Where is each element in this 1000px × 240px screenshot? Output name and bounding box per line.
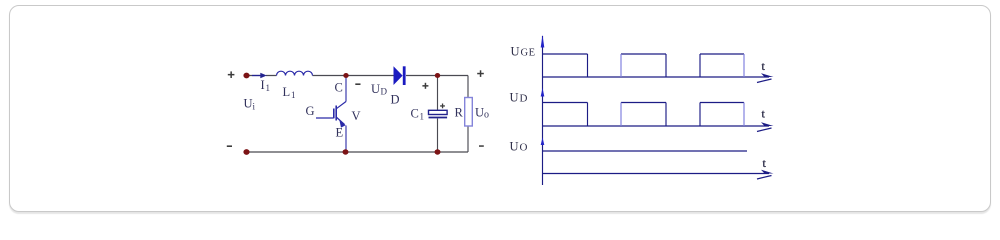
axis arrowhead up (UGE) bbox=[541, 35, 545, 48]
svg-text:D: D bbox=[520, 93, 528, 105]
svg-text:D: D bbox=[391, 93, 400, 107]
gate bar bbox=[333, 109, 335, 119]
svg-text:C: C bbox=[335, 81, 343, 95]
wire: emitter lead bbox=[345, 126, 347, 153]
label UD (waveform) bbox=[510, 91, 528, 105]
svg-text:t: t bbox=[762, 59, 766, 73]
svg-text:1: 1 bbox=[420, 112, 425, 122]
UD time axis bbox=[543, 125, 770, 127]
label UD bbox=[371, 82, 388, 97]
node: capacitor bottom junction bbox=[435, 149, 441, 154]
UD axis arrow bbox=[757, 122, 774, 131]
UO axis arrow bbox=[757, 170, 774, 179]
label Uo bbox=[475, 106, 489, 121]
label C1 bbox=[411, 107, 425, 122]
svg-text:C: C bbox=[411, 107, 419, 121]
node: input top junction bbox=[243, 73, 249, 79]
svg-text:U: U bbox=[475, 106, 484, 120]
resistor R bbox=[465, 98, 473, 127]
UGE time axis bbox=[543, 76, 770, 78]
svg-text:t: t bbox=[762, 107, 766, 121]
svg-text:I: I bbox=[261, 78, 265, 92]
svg-text:R: R bbox=[455, 106, 464, 120]
label I1 bbox=[261, 78, 271, 93]
wire: top rail from input node to diode anode bbox=[246, 75, 394, 77]
wire: bottom rail bbox=[246, 151, 468, 153]
svg-text:o: o bbox=[484, 110, 489, 121]
UGE axis arrow bbox=[757, 73, 774, 82]
svg-text:D: D bbox=[381, 87, 388, 97]
node: diode cathode junction bbox=[435, 73, 440, 78]
svg-text:GE: GE bbox=[521, 48, 536, 59]
axis arrowhead up (UO) bbox=[541, 137, 545, 145]
svg-text:1: 1 bbox=[291, 90, 296, 100]
label + (input positive terminal) bbox=[228, 71, 235, 78]
UD waveform trace bbox=[543, 103, 745, 127]
UO level trace bbox=[543, 150, 748, 152]
label - (input negative terminal) bbox=[227, 145, 232, 147]
capacitor C1 bbox=[429, 110, 448, 117]
emitter arrowhead bbox=[339, 119, 345, 127]
inductor L1 bbox=[277, 71, 313, 75]
node: collector top junction bbox=[343, 73, 348, 78]
vertical axis (shared) bbox=[542, 36, 544, 185]
label + (capacitor polarity) bbox=[440, 104, 445, 109]
collector diagonal bbox=[336, 102, 346, 109]
UD rise/fall light edges bbox=[621, 103, 744, 127]
svg-text:L: L bbox=[283, 85, 291, 99]
label + (diode cathode side, UD polarity) bbox=[422, 83, 428, 89]
body bar bbox=[335, 106, 337, 121]
svg-text:U: U bbox=[371, 82, 380, 96]
svg-text:U: U bbox=[244, 97, 253, 111]
label UO (waveform) bbox=[510, 140, 528, 154]
wire: capacitor bottom lead bbox=[437, 119, 439, 153]
label L1 bbox=[283, 85, 296, 100]
label + (output positive) bbox=[477, 70, 484, 77]
svg-text:i: i bbox=[253, 102, 256, 112]
label Ui bbox=[244, 97, 256, 112]
svg-text:O: O bbox=[520, 142, 528, 154]
svg-text:U: U bbox=[511, 45, 520, 59]
label - (output negative) bbox=[479, 145, 484, 147]
UGE rise/fall light edges bbox=[621, 54, 744, 77]
UGE waveform trace bbox=[543, 54, 745, 77]
node: input bottom junction bbox=[243, 149, 249, 155]
svg-text:1: 1 bbox=[266, 83, 271, 93]
wire: resistor bottom lead down to bottom rail corner bbox=[467, 126, 469, 152]
wire: capacitor top lead bbox=[437, 76, 439, 111]
svg-text:U: U bbox=[510, 140, 519, 154]
svg-text:V: V bbox=[352, 109, 361, 123]
wire: top rail diode cathode to output corner and down to resistor bbox=[406, 76, 468, 98]
emitter diagonal bbox=[336, 117, 344, 125]
axis arrowhead up (UD) bbox=[541, 88, 545, 97]
UO time axis bbox=[543, 173, 770, 175]
node: emitter bottom junction bbox=[343, 149, 349, 154]
svg-text:E: E bbox=[336, 126, 344, 140]
diode D bbox=[394, 66, 406, 85]
transistor V (IGBT) bbox=[316, 102, 346, 125]
label UGE bbox=[511, 45, 536, 59]
gate wire bbox=[316, 117, 334, 119]
current arrow I1 bbox=[252, 73, 267, 78]
svg-text:U: U bbox=[510, 91, 519, 105]
label - (diode anode side, UD polarity) bbox=[355, 83, 360, 85]
svg-text:G: G bbox=[306, 104, 315, 118]
svg-text:t: t bbox=[763, 156, 767, 170]
wire: collector lead bbox=[345, 76, 347, 102]
